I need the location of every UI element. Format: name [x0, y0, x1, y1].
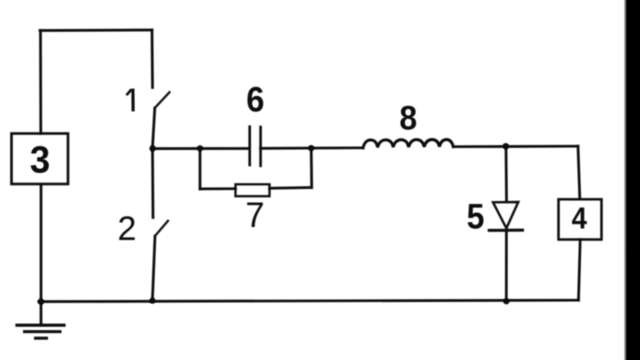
- svg-text:2: 2: [118, 210, 137, 248]
- svg-text:3: 3: [30, 138, 50, 181]
- svg-text:6: 6: [246, 80, 264, 120]
- svg-text:8: 8: [399, 99, 417, 137]
- svg-text:7: 7: [245, 196, 264, 236]
- svg-text:4: 4: [572, 202, 587, 236]
- svg-text:5: 5: [467, 197, 485, 237]
